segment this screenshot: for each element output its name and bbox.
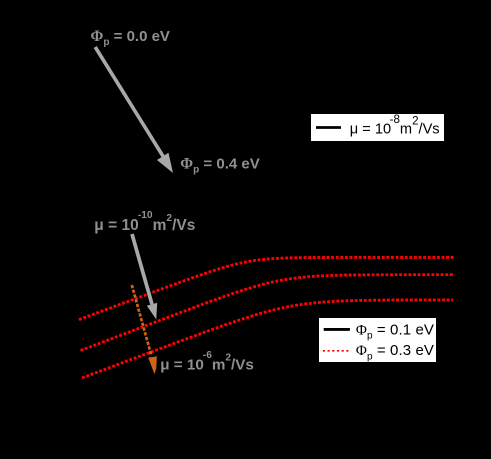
curve red dashed lower [82,300,453,378]
arrow gray A1 head [157,153,173,173]
arrow orange head [148,356,157,374]
legend box top (mu = 10^-8) [311,114,444,141]
legend bottom black line sample [324,328,350,331]
arrow gray A2 head [147,303,157,320]
legend box bottom (Phi_p legend) [319,318,436,362]
legend bottom red dashed line sample [323,350,350,352]
curve red dashed middle [81,275,455,351]
arrow gray A1 shaft (Phi_p 0.0 to 0.4 eV) [95,47,163,157]
arrow orange dashed shaft (mu 10^-6) [132,285,152,356]
arrow gray A2 shaft (mu 10^-10) [132,234,152,304]
curve red dashed upper (Phi_p=0.1 eV family top curve) [79,257,455,319]
legend top black line sample [316,126,341,129]
